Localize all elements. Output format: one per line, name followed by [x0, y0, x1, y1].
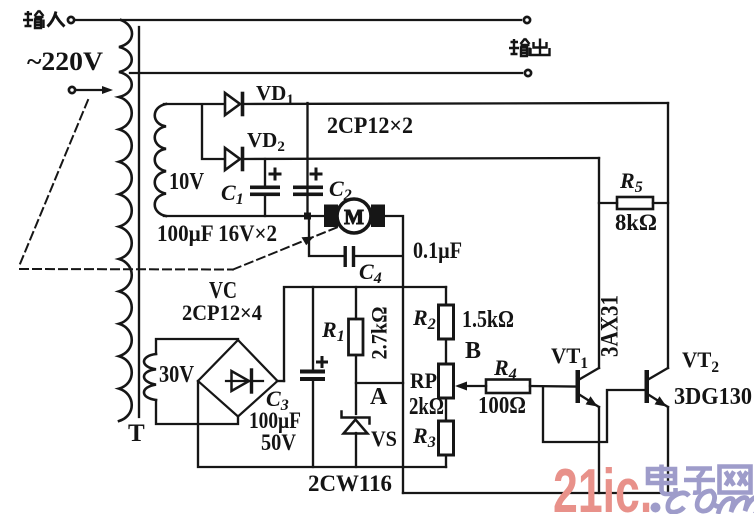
wire 30V winding box	[156, 339, 238, 424]
transformer secondary winding 30V	[144, 354, 156, 400]
terminal input top	[68, 17, 74, 23]
capacitor C1 electrolytic	[250, 168, 282, 197]
watermark 21ic	[553, 457, 652, 514]
svg-text:100µF 16V×2: 100µF 16V×2	[157, 221, 277, 246]
wire node vertical C2	[306, 103, 308, 216]
svg-text:~220V: ~220V	[27, 47, 103, 76]
svg-text:2CW116: 2CW116	[308, 471, 392, 496]
svg-text:30V: 30V	[159, 362, 195, 388]
wire VD2 row to R5 and VT1 collector	[598, 158, 600, 368]
label shuchu (output)	[509, 39, 550, 57]
svg-text:RP: RP	[410, 368, 437, 393]
capacitor C3 electrolytic	[300, 356, 328, 381]
svg-text:C2: C2	[329, 176, 352, 204]
arrow on linkage	[302, 237, 315, 246]
svg-text:VS: VS	[371, 426, 397, 451]
watermark dianziwang	[648, 465, 751, 495]
wire top input-output	[75, 19, 521, 21]
wire node A row	[356, 382, 403, 384]
wire bridge right vertex stub	[277, 380, 284, 382]
svg-text:10V: 10V	[169, 169, 205, 195]
wire motor right to bottom	[385, 216, 403, 493]
svg-text:2.7kΩ: 2.7kΩ	[367, 307, 392, 360]
svg-text:1.5kΩ: 1.5kΩ	[462, 307, 514, 333]
svg-text:R2: R2	[412, 305, 436, 333]
transistor VT1	[576, 368, 600, 407]
svg-text:C4: C4	[359, 259, 382, 287]
diode VD1	[225, 93, 243, 115]
wire C3 column	[312, 287, 314, 467]
svg-text:R4: R4	[493, 355, 517, 383]
wire bridge negative row	[198, 381, 446, 467]
resistor R2	[439, 305, 454, 339]
wire 10V bottom row	[164, 215, 326, 217]
svg-text:100Ω: 100Ω	[478, 393, 526, 419]
transformer T primary winding	[119, 20, 132, 421]
wire VT2 emitter and bottom rail	[403, 407, 668, 493]
svg-text:R1: R1	[321, 317, 345, 345]
svg-text:50V: 50V	[261, 430, 296, 455]
svg-text:8kΩ: 8kΩ	[615, 210, 657, 235]
capacitor C2 electrolytic	[293, 168, 323, 197]
dashed linkage VC to motor	[20, 100, 338, 270]
svg-text:VT1: VT1	[551, 343, 588, 372]
wire base loop down	[543, 387, 644, 442]
terminal input lower	[69, 87, 75, 93]
resistor R4	[486, 380, 530, 394]
svg-text:VD2: VD2	[247, 128, 285, 155]
bridge rectifier 2CP12x4	[198, 340, 278, 417]
svg-text:2kΩ: 2kΩ	[409, 394, 444, 420]
svg-text:3DG130: 3DG130	[674, 384, 752, 410]
wire tap arm	[76, 89, 104, 91]
arrow RP wiper	[455, 382, 467, 391]
label shuru (input)	[23, 11, 65, 29]
wire VT2 collector column	[667, 103, 669, 368]
svg-text:R5: R5	[619, 168, 643, 196]
wire R5 row	[599, 202, 668, 204]
svg-text:VT2: VT2	[682, 347, 719, 376]
wire VT1 emitter down	[598, 407, 600, 493]
arrow variac tap	[102, 86, 113, 94]
potentiometer RP	[439, 364, 454, 398]
wire C1 leads	[264, 159, 266, 216]
svg-text:21ic.: 21ic.	[553, 457, 652, 514]
resistor R1	[349, 319, 364, 355]
terminal output lower	[525, 70, 531, 76]
watermark com	[651, 491, 754, 514]
wire VD2 cathode row	[243, 158, 599, 159]
transformer core	[138, 27, 140, 417]
resistor R3	[439, 421, 454, 455]
wire output lower	[130, 72, 522, 74]
wire R2 RP R3 column	[445, 287, 447, 467]
svg-text:R3: R3	[412, 423, 436, 451]
wire bridge positive rail	[284, 287, 446, 381]
junction dot motor left	[304, 213, 311, 220]
svg-text:A: A	[370, 384, 388, 410]
capacitor C4	[344, 246, 356, 267]
wire RP wiper to R4	[459, 385, 486, 387]
svg-text:3AX31: 3AX31	[597, 295, 624, 357]
motor M	[324, 199, 385, 233]
terminal output top	[524, 17, 530, 23]
diode VD2	[225, 148, 243, 170]
resistor R5	[617, 197, 653, 209]
wire R4 to VT1 base	[530, 385, 575, 388]
svg-text:VD1: VD1	[256, 81, 294, 108]
svg-text:2CP12×2: 2CP12×2	[327, 113, 413, 138]
svg-text:0.1µF: 0.1µF	[413, 238, 462, 263]
svg-text:M: M	[344, 205, 364, 229]
svg-text:T: T	[128, 420, 145, 447]
wire R1 column	[355, 287, 357, 467]
zener diode VS	[342, 412, 370, 434]
transformer secondary winding 10V	[155, 104, 166, 216]
svg-text:2CP12×4: 2CP12×4	[182, 300, 262, 325]
wire VD1 cathode row	[243, 103, 668, 104]
svg-text:C1: C1	[221, 180, 244, 208]
wire C4 row	[309, 216, 402, 256]
wire 10V top to VD anodes	[164, 104, 223, 159]
svg-text:B: B	[465, 338, 481, 364]
transistor VT2	[645, 368, 669, 407]
